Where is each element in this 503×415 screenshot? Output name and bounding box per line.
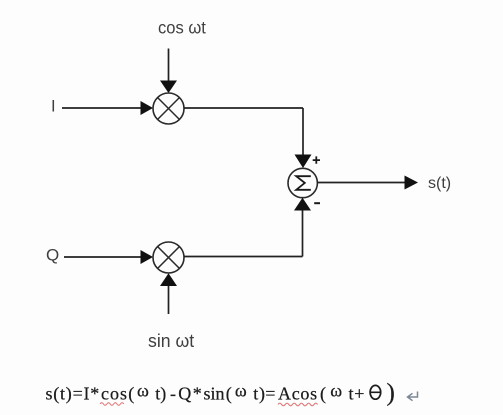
summer U1 circle: [288, 168, 317, 197]
svg-text:*: *: [193, 384, 202, 404]
svg-text:I: I: [51, 98, 56, 116]
svg-text:s(t)=I*: s(t)=I*: [46, 384, 101, 405]
svg-text:): ): [259, 384, 265, 405]
wire M1 to corner: [184, 107, 303, 109]
arrowhead into multiplier M2 left: [141, 250, 154, 264]
minus sign at summer: [314, 202, 320, 204]
arrowhead into multiplier M1 left: [141, 101, 154, 115]
svg-text:-: -: [170, 384, 176, 404]
wire summer output: [317, 182, 405, 184]
formula theta: [370, 385, 381, 399]
svg-text:Acos: Acos: [278, 384, 318, 404]
arrowhead into multiplier M1 top: [160, 81, 177, 94]
svg-text:): ): [387, 380, 395, 407]
wire corner up to summer: [302, 210, 304, 257]
multiplier M1 cross: [158, 98, 180, 120]
svg-text:cos ωt: cos ωt: [158, 17, 206, 38]
svg-text:(: (: [128, 384, 134, 405]
svg-text:sin: sin: [204, 384, 225, 404]
svg-text:Q: Q: [46, 246, 59, 265]
svg-text:t: t: [253, 384, 258, 404]
svg-text:ω: ω: [235, 381, 247, 401]
red squiggle under cos: [100, 403, 124, 406]
svg-text:t): t): [155, 384, 166, 405]
wire cos input vertical: [168, 49, 170, 82]
red squiggle under Acos: [278, 403, 318, 406]
wire I input horizontal: [62, 107, 142, 109]
svg-text:(: (: [226, 384, 232, 405]
svg-text:=: =: [265, 384, 275, 404]
svg-text:(: (: [320, 384, 326, 405]
svg-text:Q: Q: [178, 384, 191, 404]
arrowhead into multiplier M2 bottom: [160, 273, 177, 286]
svg-text:+: +: [354, 384, 364, 404]
multiplier M1 circle: [153, 93, 184, 124]
svg-text:t: t: [349, 384, 354, 404]
arrowhead into summer bottom: [294, 198, 311, 211]
arrowhead output: [405, 176, 419, 190]
paragraph return mark: [408, 392, 418, 401]
multiplier M2 circle: [153, 242, 184, 273]
wire M2 to corner: [184, 256, 303, 258]
svg-text:cos: cos: [101, 384, 128, 404]
wire corner down to summer: [302, 108, 304, 155]
wire Q input horizontal: [64, 256, 142, 258]
svg-text:ω: ω: [330, 381, 342, 401]
svg-text:ω: ω: [137, 381, 149, 401]
svg-text:sin ωt: sin ωt: [148, 331, 194, 351]
multiplier M2 cross: [158, 247, 180, 269]
plus sign at summer: [313, 156, 320, 163]
summer sigma glyph: [296, 176, 311, 190]
wire sin input vertical: [168, 286, 170, 315]
arrowhead into summer top: [295, 155, 312, 169]
svg-text:s(t): s(t): [428, 175, 451, 192]
